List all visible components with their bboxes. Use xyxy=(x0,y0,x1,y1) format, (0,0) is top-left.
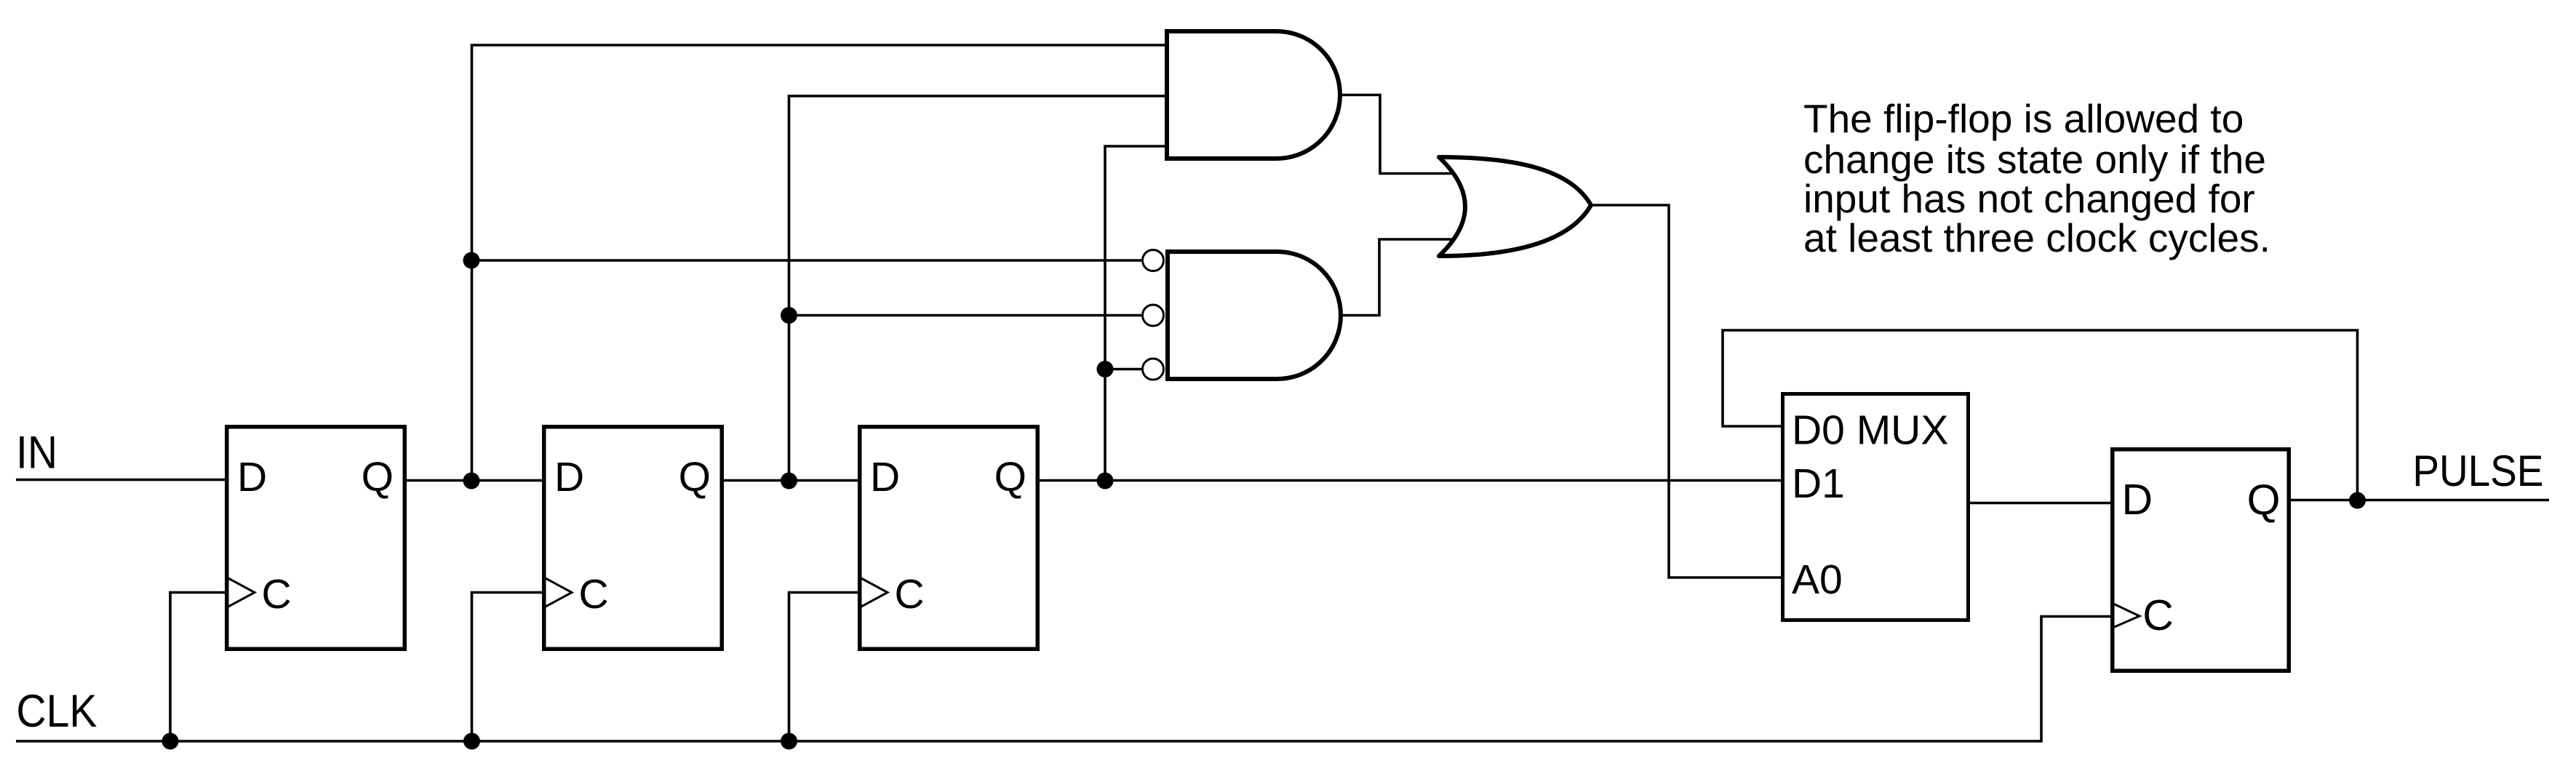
junction dot FF3.Q riser branch xyxy=(1097,361,1114,377)
svg-text:IN: IN xyxy=(16,428,57,479)
svg-text:Q: Q xyxy=(994,454,1026,500)
wire FF2.Q riser to AND1 input B xyxy=(789,96,1168,481)
svg-text:Q: Q xyxy=(679,454,711,500)
svg-text:The flip-flop is allowed to: The flip-flop is allowed to xyxy=(1803,96,2244,141)
wire CLK branch to FF2.C xyxy=(472,593,545,742)
junction dot CLK at FF3 xyxy=(781,733,797,750)
svg-text:change its state only if the: change its state only if the xyxy=(1803,137,2266,182)
wire FF2.Q to FF3.D xyxy=(720,479,860,482)
junction dot PULSE feedback xyxy=(2349,492,2366,509)
wire FF1.Q riser to AND1 input A xyxy=(472,45,1168,481)
wire OR output to MUX.A0 xyxy=(1591,205,1782,578)
svg-text:D1: D1 xyxy=(1792,460,1845,507)
wire NAND output to OR input 2 xyxy=(1341,239,1454,316)
junction dot FF1.Q xyxy=(463,473,480,490)
wire branch FF2.Q to NAND bubble 2 xyxy=(789,314,1142,317)
OR gate U3 xyxy=(1439,157,1591,256)
junction dot FF2.Q xyxy=(781,473,797,490)
svg-text:D: D xyxy=(237,454,267,500)
svg-text:PULSE: PULSE xyxy=(2412,447,2543,495)
svg-text:D0 MUX: D0 MUX xyxy=(1792,407,1948,454)
flip-flop FF1 box xyxy=(227,427,405,650)
flip-flop FF4 box xyxy=(2113,450,2289,671)
flip-flop FF1 clock triangle xyxy=(227,578,255,607)
svg-text:A0: A0 xyxy=(1792,556,1843,603)
svg-text:C: C xyxy=(895,571,925,618)
wire AND1 output to OR input 1 xyxy=(1340,95,1454,174)
wire branch FF3.Q to NAND bubble 3 xyxy=(1105,368,1141,371)
wire CLK branch to FF3.C xyxy=(789,593,861,742)
wire FF3.Q riser to AND1 input C xyxy=(1105,146,1167,481)
flip-flop FF2 box xyxy=(544,427,722,650)
junction dot FF2.Q riser branch xyxy=(781,307,797,324)
svg-text:C: C xyxy=(2142,591,2174,639)
wire PULSE feedback to MUX.D0 xyxy=(1723,330,2358,500)
svg-text:input has not changed for: input has not changed for xyxy=(1803,176,2255,221)
wire FF1.Q to FF2.D xyxy=(404,479,544,482)
svg-text:C: C xyxy=(262,571,292,618)
MUX box xyxy=(1783,394,1969,620)
junction dot CLK at FF2 xyxy=(463,733,480,750)
AND gate U1 (3-input) xyxy=(1167,31,1340,159)
wire FF3.Q to MUX.D1 xyxy=(1037,479,1782,482)
junction dot FF1.Q riser branch xyxy=(463,252,480,269)
NAND gate U2 (3 inverted inputs) xyxy=(1168,252,1341,379)
inverter bubble input 2 xyxy=(1143,305,1164,326)
wire CLK bus xyxy=(16,617,2112,742)
flip-flop FF3 clock triangle xyxy=(860,578,888,607)
wire IN to FF1.D xyxy=(16,479,226,482)
svg-text:D: D xyxy=(870,454,900,500)
flip-flop FF4 clock triangle xyxy=(2113,604,2140,628)
wire FF4.Q to PULSE xyxy=(2289,499,2549,502)
wire CLK branch to FF1.C xyxy=(170,593,226,742)
flip-flop FF3 box xyxy=(860,427,1038,650)
svg-text:at least three clock cycles.: at least three clock cycles. xyxy=(1803,215,2270,260)
wire MUX output to FF4.D xyxy=(1969,502,2112,505)
flip-flop FF2 clock triangle xyxy=(544,578,572,607)
svg-text:C: C xyxy=(579,571,609,618)
inverter bubble input 1 xyxy=(1143,250,1164,271)
svg-text:Q: Q xyxy=(362,454,394,500)
svg-text:D: D xyxy=(554,454,584,500)
svg-text:Q: Q xyxy=(2247,476,2281,524)
junction dot FF3.Q xyxy=(1097,473,1114,490)
junction dot CLK at FF1 xyxy=(162,733,179,750)
svg-text:D: D xyxy=(2122,476,2153,524)
svg-text:CLK: CLK xyxy=(16,686,97,737)
wire branch FF1.Q to NAND bubble 1 xyxy=(472,259,1142,262)
inverter bubble input 3 xyxy=(1143,359,1164,380)
